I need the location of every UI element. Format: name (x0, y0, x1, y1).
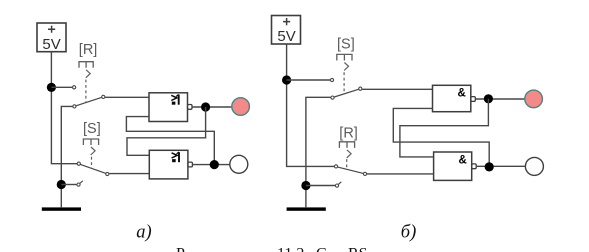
wire S lower contact to ground rail (306, 97, 331, 207)
node Q dot (201, 102, 210, 111)
node +5V junction dot (282, 75, 291, 84)
gate U2 label >=1 (172, 152, 179, 162)
battery plus sign (283, 18, 290, 25)
stub to S lower contact (open) (61, 184, 76, 186)
wire R lower contact to ground rail (61, 106, 72, 207)
wire R pivot to gate U4 input B (367, 173, 434, 175)
gate U2 output bubble (188, 162, 192, 167)
switch S pivot (359, 87, 362, 90)
key dashed link S right (343, 72, 345, 94)
svg-text:Р: Р (176, 246, 185, 252)
key dashed link S (91, 157, 93, 169)
key cap R (79, 62, 93, 68)
svg-text:5V: 5V (277, 28, 295, 45)
battery V2 5V box (272, 16, 301, 45)
gate U4 output bubble (472, 164, 476, 169)
switch S lower contact open hook (77, 183, 80, 186)
key spring R right (347, 150, 351, 158)
gate U2 NOR box (149, 150, 188, 179)
battery V1 5V box (37, 23, 66, 52)
wire U2 output to lamp X2 (192, 164, 229, 166)
switch R upper contact right (334, 165, 337, 168)
gate U4 NAND box (434, 152, 472, 180)
wire U1 output to lamp X1 (192, 106, 232, 108)
gate U1 label >=1 (171, 95, 178, 105)
wire coupling Qbar to U1 input B (126, 117, 214, 165)
key spring R (86, 70, 90, 78)
node ground junction dot right (301, 181, 310, 190)
svg-text:11.2: 11.2 (277, 246, 304, 252)
wire battery bottom to +5V rail (287, 44, 335, 166)
key cap R right (339, 142, 354, 148)
ground symbol left (42, 207, 81, 210)
node Qbar dot right (485, 162, 494, 171)
gate U1 NOR box (149, 93, 188, 122)
wire coupling Qbar to U3 input B (393, 108, 489, 166)
wire U3 output to lamp X3 (475, 98, 525, 100)
node Q dot right (484, 94, 493, 103)
wire S pivot to gate U2 input B (109, 173, 149, 175)
node Qbar dot (210, 160, 219, 169)
lamp X2 (off, white) (230, 155, 248, 173)
svg-text:[R]: [R] (79, 42, 98, 58)
gate U3 output bubble (471, 97, 475, 102)
switch R upper contact (73, 86, 76, 89)
switch S arm (80, 164, 105, 173)
svg-text:[S]: [S] (337, 37, 355, 53)
gate U1 output bubble (188, 105, 192, 110)
svg-text:RS: RS (348, 246, 368, 252)
lamp X3 (lit, red) (525, 90, 543, 108)
switch R lower contact open hook (335, 184, 338, 187)
key cap S (83, 139, 98, 145)
lamp X4 (off, white) (525, 157, 543, 175)
figure caption (clipped at bottom) (176, 246, 368, 252)
switch R arm (76, 97, 102, 105)
wire coupling Q to U4 input A (400, 99, 489, 157)
wire battery bottom to +5V rail (51, 52, 78, 164)
svg-text:б): б) (401, 223, 416, 243)
lamp X1 (lit, red) (232, 98, 250, 116)
switch R lower contact (73, 105, 76, 108)
svg-text:[S]: [S] (83, 121, 101, 137)
stub to R lower contact (open) (306, 185, 335, 187)
svg-text:а): а) (136, 223, 151, 243)
switch S upper contact (330, 78, 333, 81)
battery plus sign (48, 26, 55, 33)
switch R pivot (102, 95, 105, 98)
wire U4 output to lamp X4 (476, 165, 525, 167)
wire junction to S upper contact (287, 79, 331, 81)
gate U3 NAND box (433, 85, 471, 111)
key dashed link R right (346, 159, 348, 169)
switch S arm (334, 89, 358, 97)
switch S upper contact (77, 162, 80, 165)
switch S lower contact (331, 96, 334, 99)
svg-text:5V: 5V (42, 36, 60, 53)
key dashed link R (85, 80, 87, 103)
switch R pivot right (363, 172, 366, 175)
node ground junction dot (57, 180, 66, 189)
switch S pivot (106, 172, 109, 175)
svg-text:&: & (459, 155, 467, 167)
wire coupling Q to U2 input A (127, 107, 206, 155)
wire R pivot to gate U1 input A (105, 96, 149, 98)
svg-text:&: & (458, 88, 466, 100)
wire junction to R upper contact (51, 86, 72, 88)
key cap S right (337, 54, 352, 60)
node +5V junction dot (47, 83, 56, 92)
switch R arm right (338, 167, 364, 173)
wire S pivot to gate U3 input A (362, 88, 432, 90)
key spring S (91, 147, 95, 155)
svg-text:[R]: [R] (339, 126, 358, 142)
key spring S right (344, 63, 348, 71)
ground symbol right (287, 207, 326, 210)
svg-text:С: С (316, 246, 327, 252)
